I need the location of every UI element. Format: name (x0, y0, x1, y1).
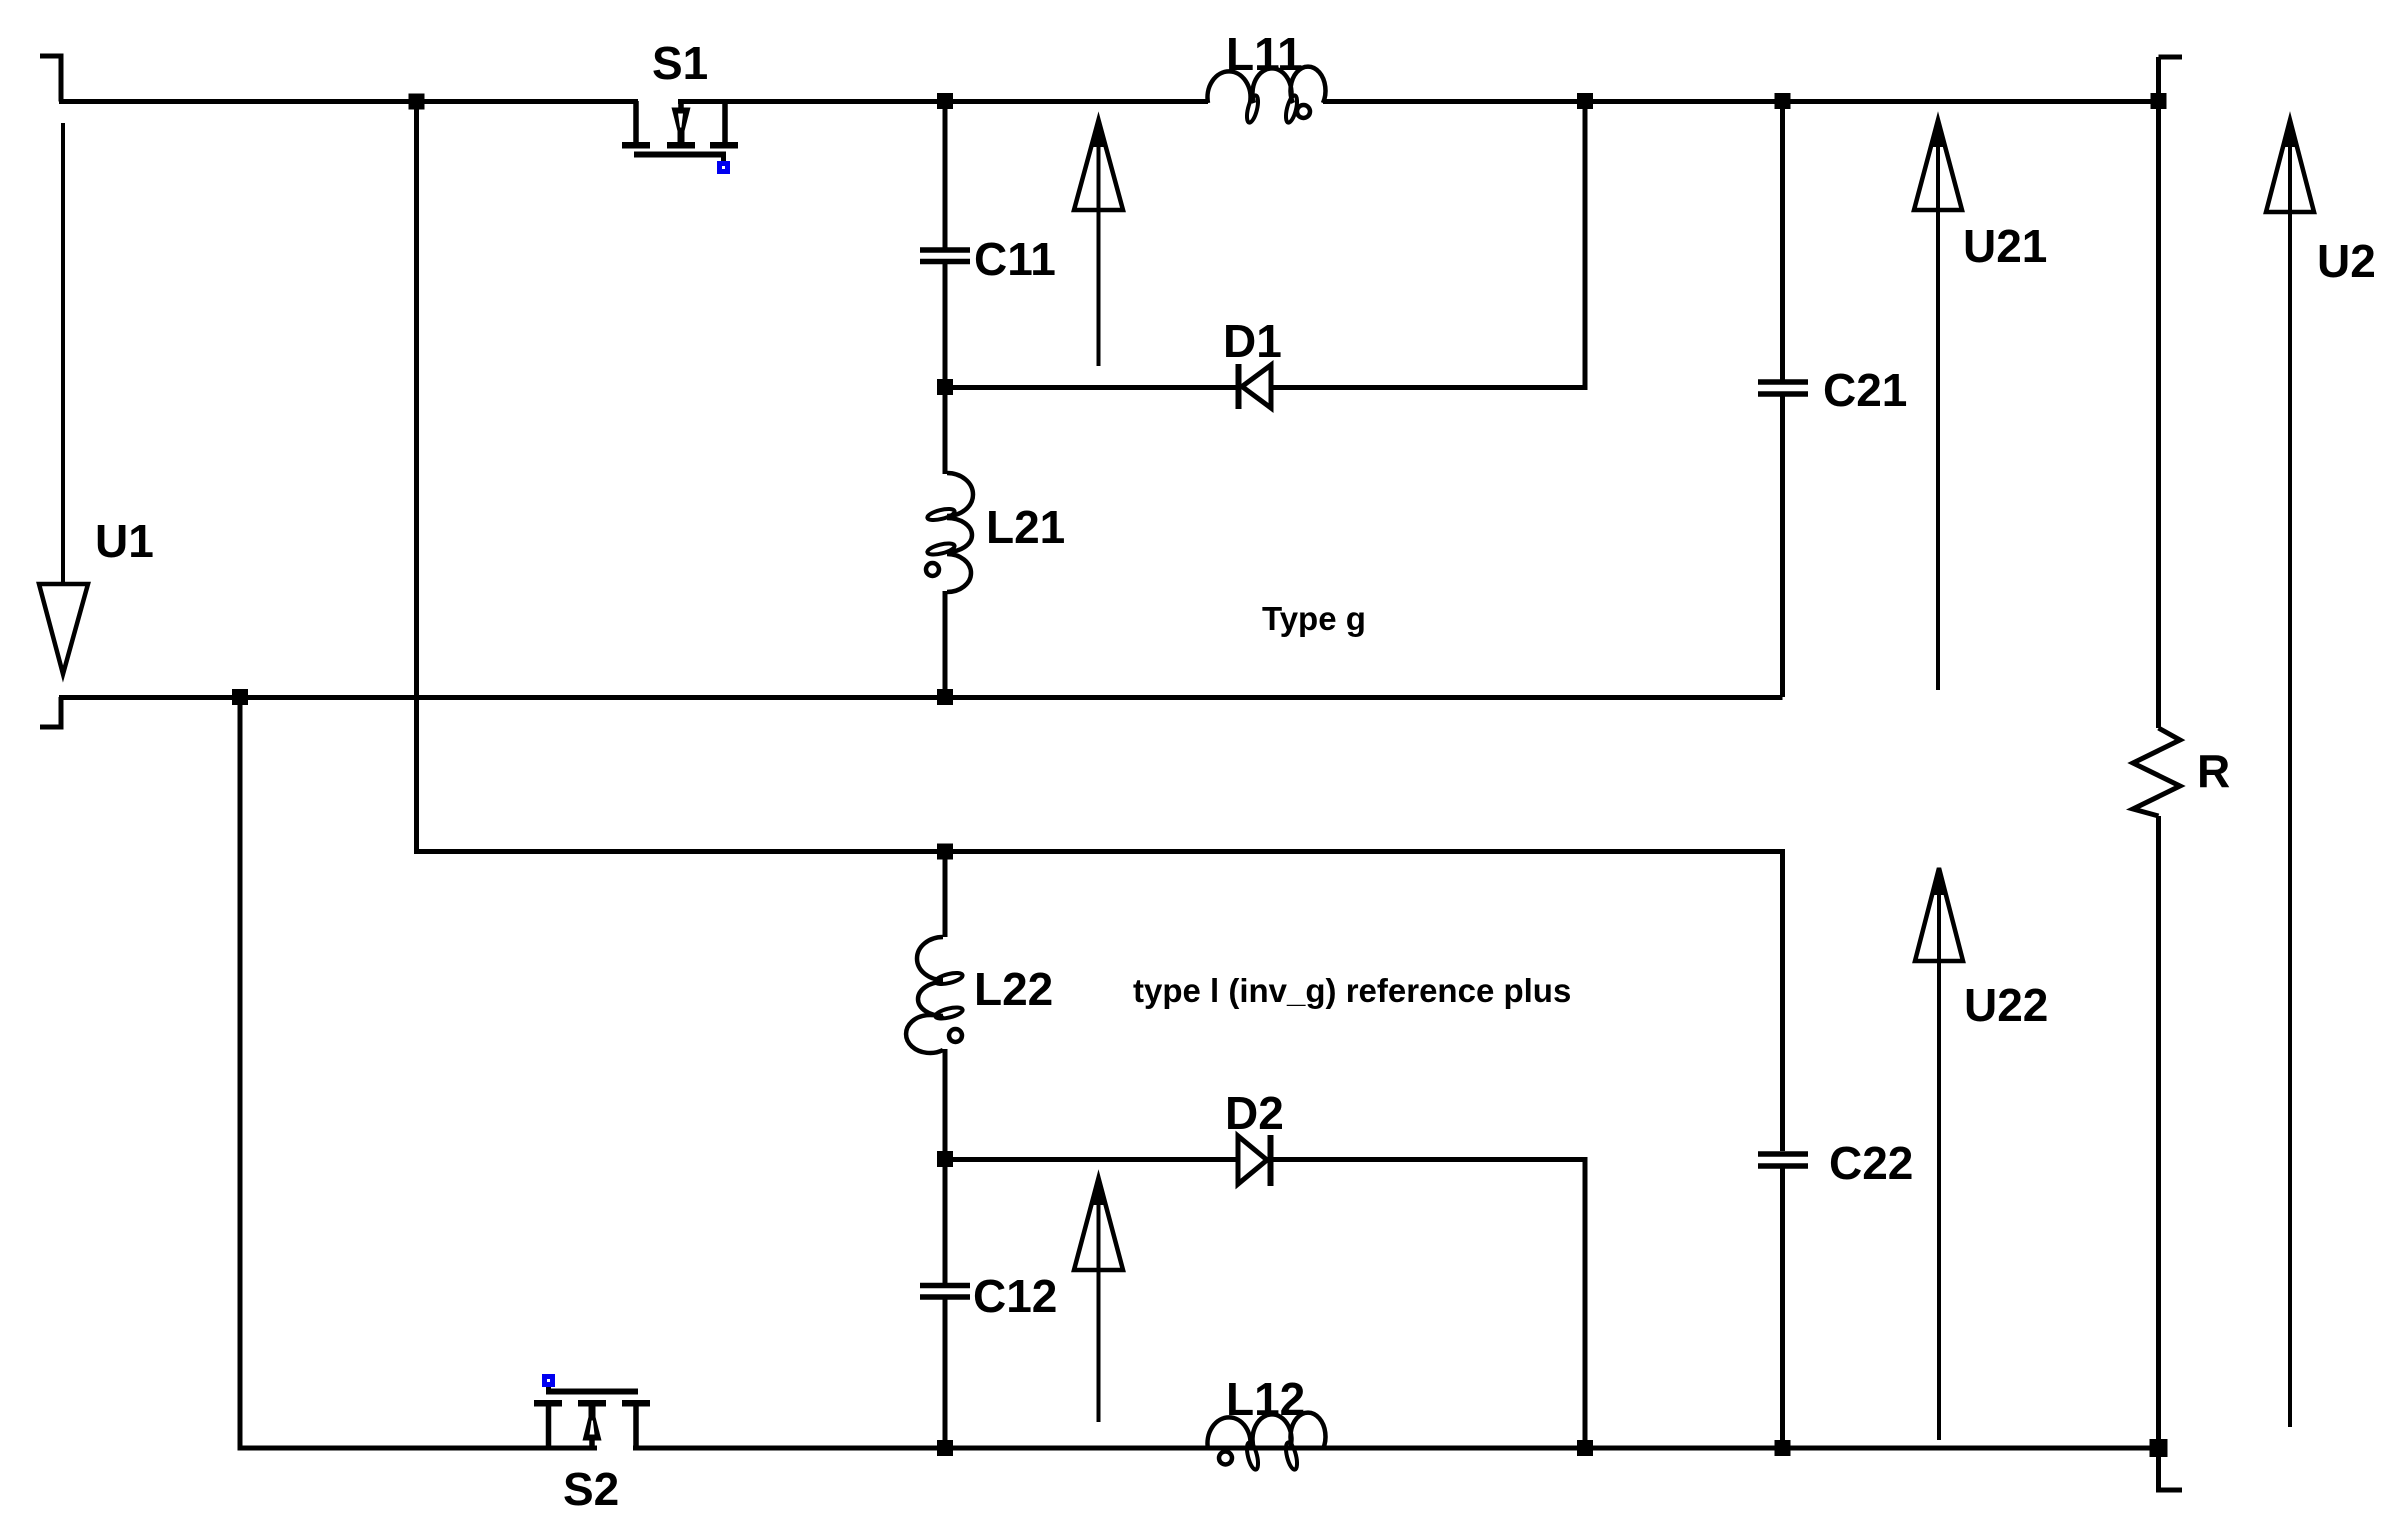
svg-text:U22: U22 (1964, 979, 2048, 1031)
svg-text:L12: L12 (1226, 1373, 1305, 1425)
svg-text:L11: L11 (1226, 28, 1303, 80)
svg-text:L22: L22 (974, 963, 1053, 1015)
svg-text:U2: U2 (2317, 235, 2376, 287)
svg-text:Type g: Type g (1262, 600, 1366, 637)
svg-text:D1: D1 (1223, 315, 1282, 367)
svg-text:C22: C22 (1829, 1137, 1913, 1189)
svg-text:S2: S2 (563, 1463, 619, 1515)
svg-text:R: R (2197, 745, 2230, 797)
svg-text:type l (inv_g) reference plus: type l (inv_g) reference plus (1133, 972, 1571, 1009)
svg-text:D2: D2 (1225, 1087, 1284, 1139)
svg-text:U21: U21 (1963, 220, 2047, 272)
svg-text:C21: C21 (1823, 364, 1907, 416)
svg-text:S1: S1 (652, 37, 708, 89)
svg-text:L21: L21 (986, 501, 1065, 553)
svg-text:C11: C11 (974, 233, 1056, 285)
svg-text:C12: C12 (973, 1270, 1057, 1322)
svg-text:U1: U1 (95, 515, 154, 567)
